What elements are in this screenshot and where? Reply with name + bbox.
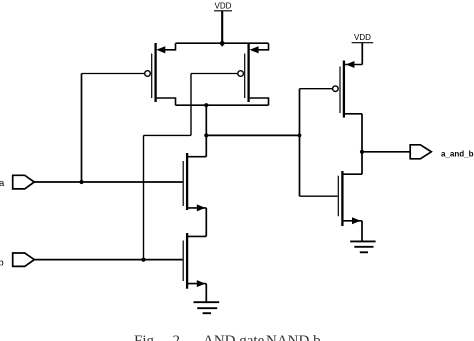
- junction a: [79, 180, 83, 184]
- wire b jog: [144, 134, 192, 136]
- wire top VDD rail: [176, 42, 269, 44]
- wire M6 source down: [205, 284, 207, 303]
- wire VDD to rail: [221, 11, 223, 43]
- svg-text:a: a: [0, 178, 5, 189]
- input port a: [0, 175, 34, 189]
- ground G2: [350, 241, 375, 252]
- wire M6 drain lead: [187, 235, 206, 237]
- wire a: [34, 181, 182, 183]
- wire gate lead M2: [191, 73, 238, 75]
- wire M4 source down: [361, 221, 363, 242]
- wire M3 gate lead: [300, 88, 333, 90]
- wire a up to M1 gate: [81, 74, 83, 183]
- VDD label (NAND): [214, 2, 232, 11]
- input port b: [0, 253, 34, 268]
- wire b up: [143, 135, 145, 259]
- junction NAND output node: [204, 133, 208, 137]
- wire b up to M2 gate: [190, 74, 192, 136]
- junction output: [360, 150, 364, 154]
- wire VDD2 down: [361, 43, 363, 65]
- ground G1: [194, 302, 220, 313]
- caption Fig. 2: [0, 329, 474, 341]
- wire NAND output down: [205, 105, 207, 157]
- VDD label (inverter): [352, 33, 374, 43]
- wire gate lead M1: [82, 73, 145, 75]
- wire output: [362, 151, 410, 153]
- nmos M6 (gate b): [183, 233, 206, 289]
- svg-text:VDD: VDD: [354, 33, 371, 42]
- junction b: [141, 258, 145, 262]
- wire b: [34, 259, 182, 261]
- nmos M5 (gate a): [183, 153, 206, 211]
- svg-text:b: b: [0, 257, 4, 268]
- pmos M1 (left, gate a): [145, 43, 176, 105]
- wire NAND output to inverter input: [206, 134, 299, 136]
- output port a_and_b: [410, 145, 473, 159]
- junction inverter input: [298, 134, 302, 138]
- pmos M2 (right, gate b): [238, 43, 269, 105]
- junction VDD/rail: [219, 40, 225, 47]
- pmos M3 (inverter): [333, 61, 363, 118]
- nmos M4 (inverter): [338, 171, 362, 226]
- svg-text:a_and_b: a_and_b: [441, 149, 474, 158]
- svg-text:VDD: VDD: [215, 2, 232, 11]
- wire to M5 drain: [187, 156, 206, 158]
- wire M4 gate lead: [300, 195, 338, 197]
- wire NAND drain rail: [176, 104, 269, 106]
- wire M5 source to M6 drain: [205, 208, 207, 237]
- wire inverter input vertical: [299, 89, 301, 197]
- junction drain rail: [204, 103, 208, 107]
- wire inverter output vertical: [361, 114, 363, 174]
